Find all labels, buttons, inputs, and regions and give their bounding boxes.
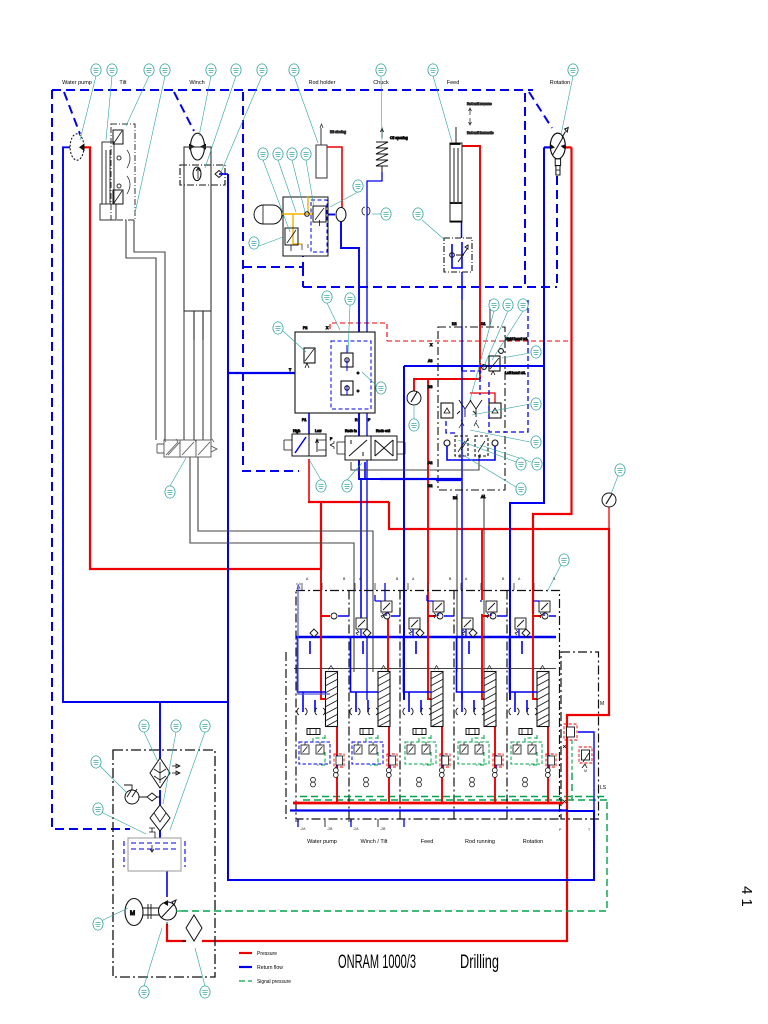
- svg-text:B2: B2: [428, 484, 432, 488]
- svg-text:Feed: Feed: [447, 80, 460, 86]
- svg-text:ONRAM 1000/3: ONRAM 1000/3: [338, 952, 416, 973]
- svg-text:LS: LS: [600, 785, 607, 791]
- svg-text:P2: P2: [303, 326, 307, 330]
- svg-text:41: 41: [738, 886, 755, 911]
- svg-text:Feed: Feed: [421, 839, 434, 845]
- svg-text:Rods out: Rods out: [376, 429, 390, 433]
- svg-text:-2A: -2A: [353, 827, 359, 831]
- svg-text:-2B: -2B: [327, 827, 333, 831]
- svg-text:A3: A3: [428, 359, 432, 363]
- svg-text:Water pump: Water pump: [307, 839, 337, 845]
- svg-text:High: High: [293, 429, 300, 433]
- svg-text:Return flow: Return flow: [257, 965, 283, 971]
- svg-text:Rotation: Rotation: [523, 839, 544, 845]
- svg-text:M: M: [584, 769, 587, 773]
- svg-text:B3: B3: [428, 385, 432, 389]
- svg-text:M: M: [600, 701, 604, 707]
- svg-text:Winch: Winch: [189, 80, 204, 86]
- svg-text:Rot unit reverse: Rot unit reverse: [467, 102, 492, 106]
- svg-text:D2: D2: [452, 322, 457, 326]
- svg-text:Right hand rot.: Right hand rot.: [505, 337, 528, 341]
- svg-text:Pressure: Pressure: [257, 951, 277, 957]
- svg-text:B1: B1: [453, 496, 457, 500]
- svg-text:Rotation: Rotation: [550, 80, 571, 86]
- svg-text:Low: Low: [315, 429, 322, 433]
- svg-text:Left hand rot.: Left hand rot.: [505, 371, 526, 375]
- svg-text:M: M: [130, 911, 135, 917]
- svg-text:-2A: -2A: [300, 827, 306, 831]
- svg-text:A2: A2: [428, 461, 432, 465]
- svg-text:P1: P1: [302, 418, 306, 422]
- svg-text:Rod running: Rod running: [465, 839, 495, 845]
- svg-text:Bit closing: Bit closing: [330, 130, 346, 134]
- svg-text:Rods in: Rods in: [345, 429, 357, 433]
- svg-text:Oil opening: Oil opening: [390, 136, 408, 140]
- svg-text:A1: A1: [481, 495, 485, 499]
- svg-text:Water pump: Water pump: [62, 80, 92, 86]
- svg-text:Drilling: Drilling: [460, 952, 499, 973]
- svg-text:-2B: -2B: [380, 827, 386, 831]
- svg-text:Signal pressure: Signal pressure: [257, 979, 291, 985]
- svg-text:Winch / Tilt: Winch / Tilt: [361, 839, 388, 845]
- svg-text:Rot unit forwards: Rot unit forwards: [467, 131, 494, 135]
- svg-text:D1: D1: [481, 322, 486, 326]
- svg-text:Tilt: Tilt: [119, 80, 127, 86]
- svg-text:Rod holder: Rod holder: [309, 80, 336, 86]
